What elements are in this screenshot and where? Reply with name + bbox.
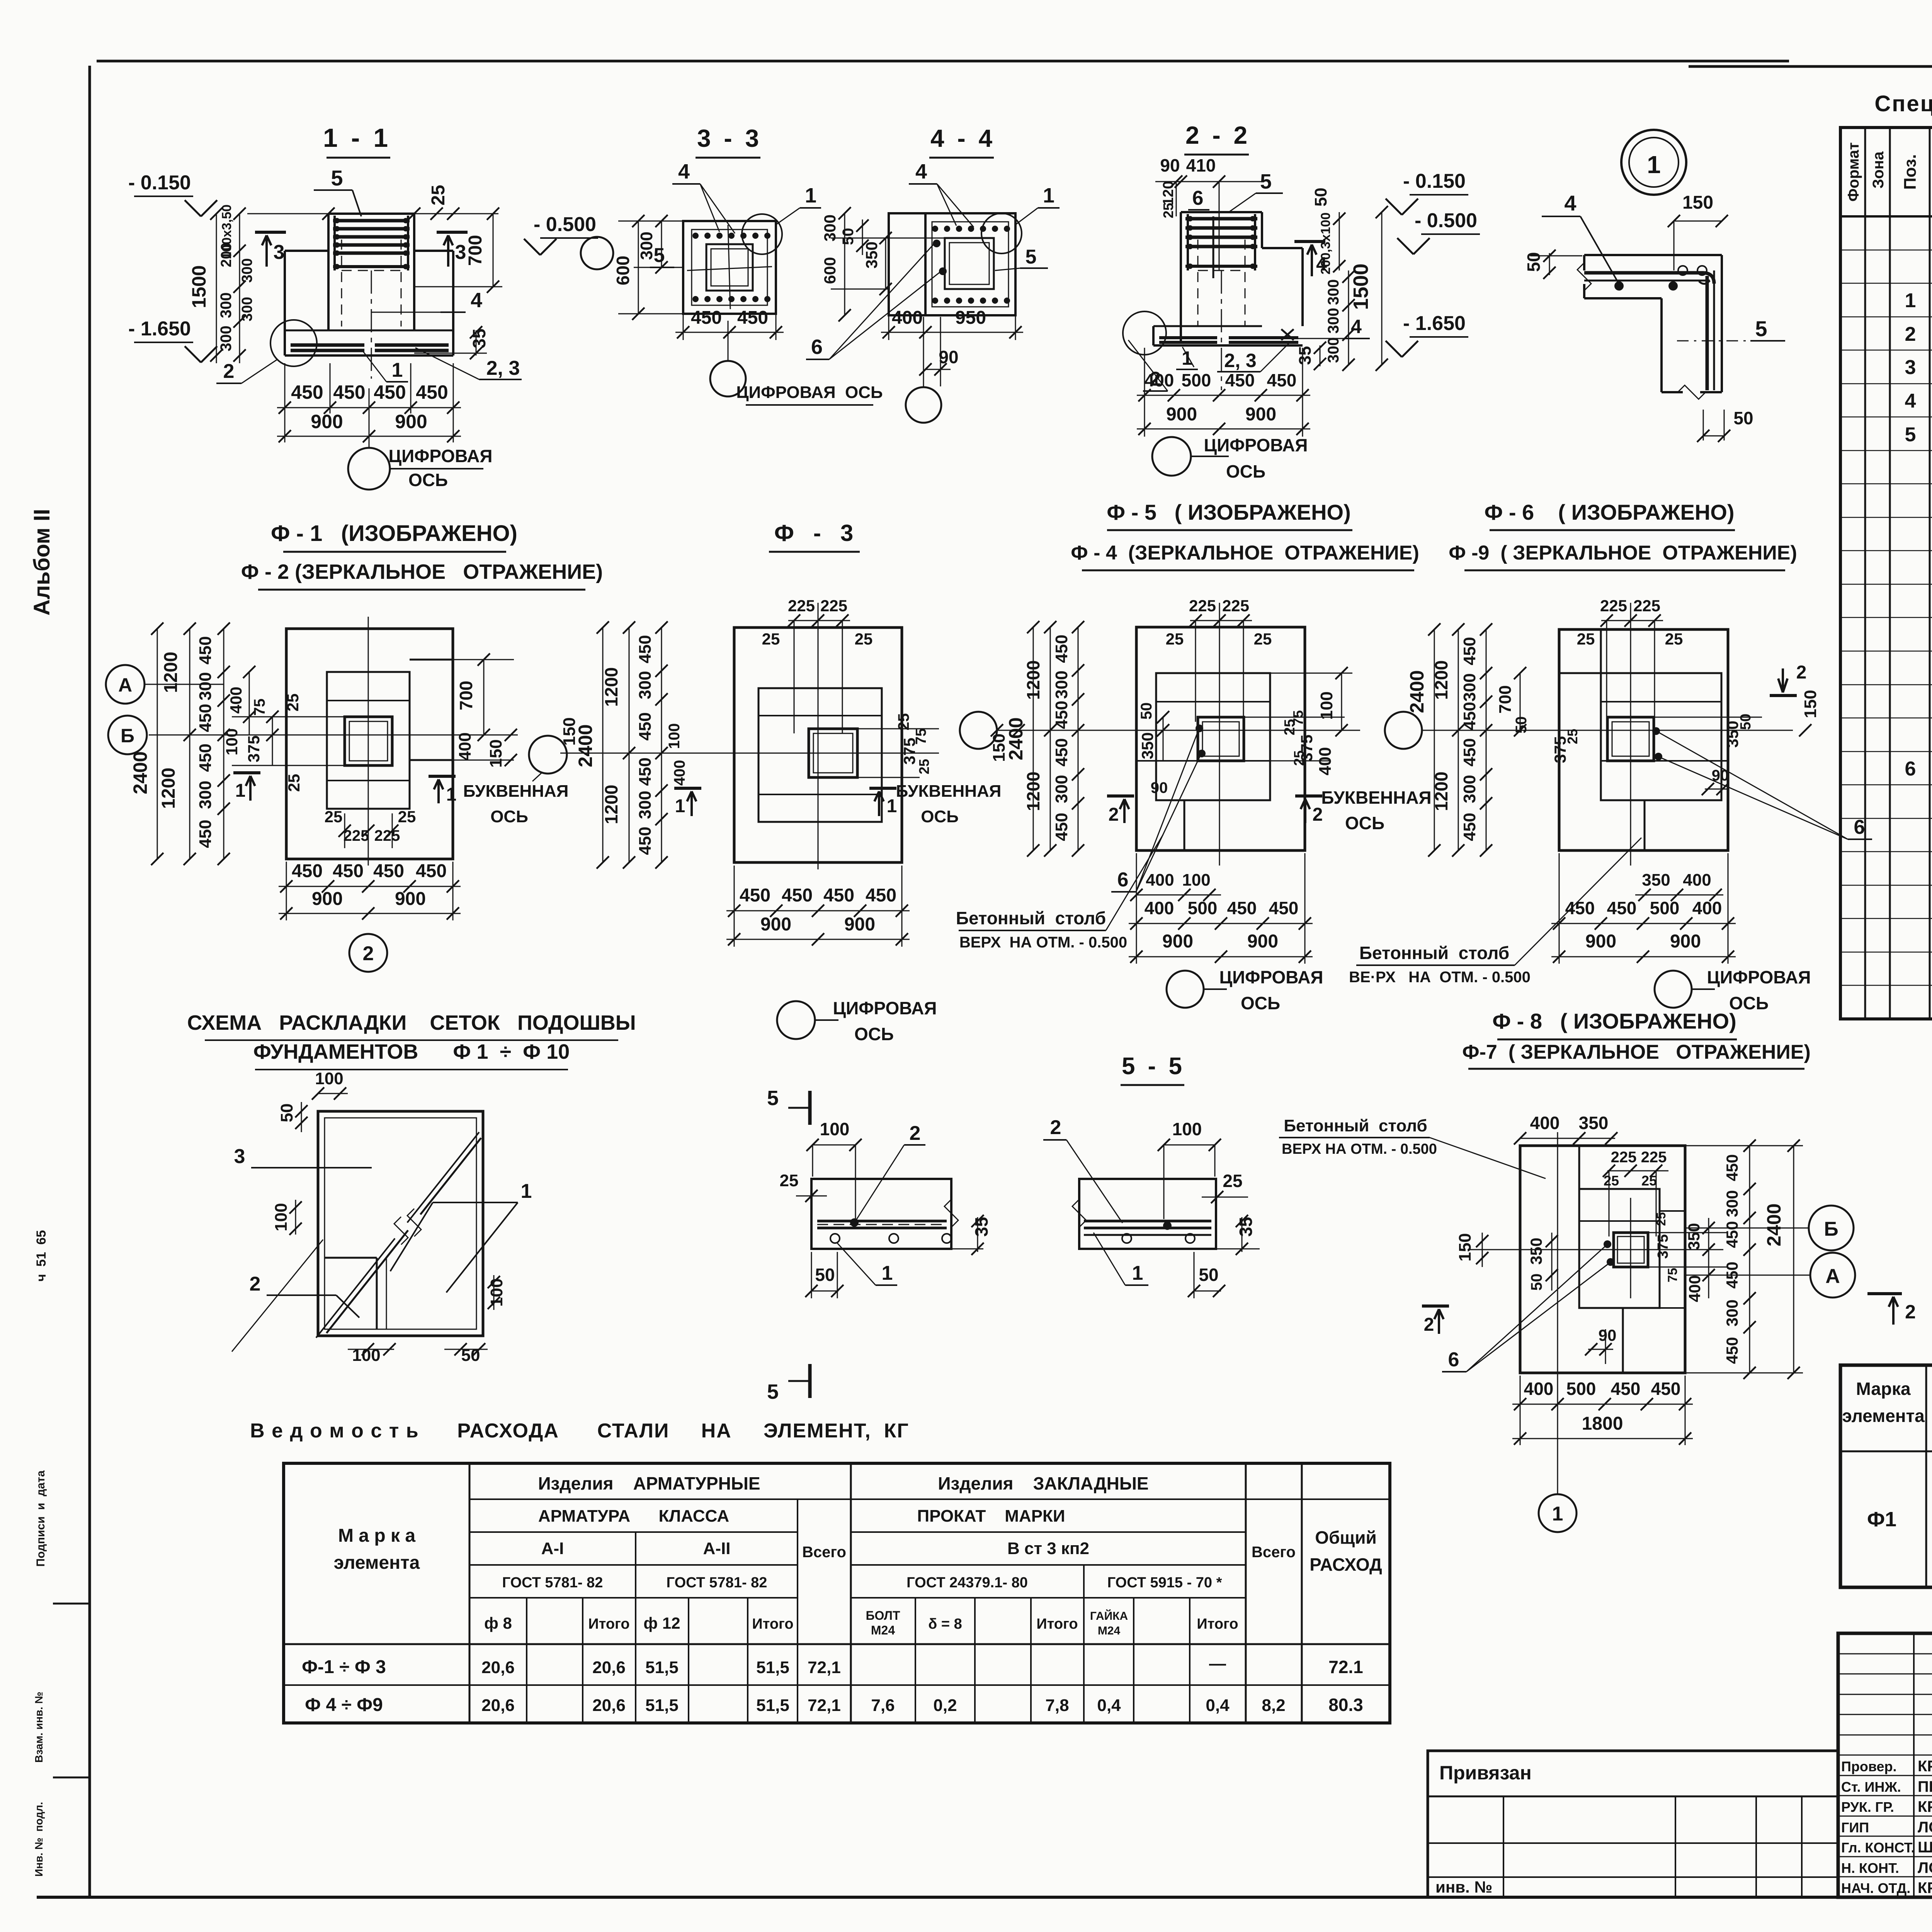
svg-text:4: 4	[1351, 316, 1362, 337]
svg-text:А-II: А-II	[703, 1539, 731, 1558]
svg-text:50: 50	[1524, 252, 1544, 272]
svg-text:2: 2	[223, 360, 235, 383]
plan F-8 top right notch line	[1660, 1210, 1685, 1212]
svg-text:БУКВЕННАЯ: БУКВЕННАЯ	[463, 782, 569, 801]
svg-text:450: 450	[740, 885, 770, 906]
svg-text:500: 500	[1650, 898, 1680, 918]
svg-text:2 - 2: 2 - 2	[1185, 121, 1250, 149]
svg-text:450: 450	[1052, 813, 1071, 841]
section 5-5 left cut flag top	[808, 1091, 812, 1125]
svg-text:450: 450	[291, 381, 323, 403]
svg-text:50: 50	[815, 1265, 835, 1285]
plan F-5 section flag 2 left	[1107, 794, 1134, 798]
svg-text:КРАСАВИН: КРАСАВИН	[1918, 1879, 1932, 1896]
svg-text:Инв. № подл.: Инв. № подл.	[33, 1802, 45, 1877]
svg-text:2400: 2400	[1763, 1203, 1785, 1246]
svg-text:Гл. КОНСТ.: Гл. КОНСТ.	[1841, 1840, 1915, 1855]
svg-text:Ф -9 ( ЗЕРКАЛЬНОЕ ОТРАЖЕНИЕ): Ф -9 ( ЗЕРКАЛЬНОЕ ОТРАЖЕНИЕ)	[1449, 542, 1797, 564]
svg-text:Изделия АРМАТУРНЫЕ: Изделия АРМАТУРНЫЕ	[538, 1473, 760, 1493]
svg-text:1200: 1200	[158, 768, 179, 809]
svg-text:900: 900	[1585, 931, 1616, 952]
section 2-2 inner dashed	[1197, 240, 1199, 326]
loads table header underline	[1840, 1451, 1932, 1452]
plan F-1 tier rect	[327, 672, 410, 809]
plan F-6 axis bubble	[1655, 971, 1692, 1008]
svg-text:2: 2	[910, 1122, 921, 1145]
svg-text:25: 25	[1223, 1171, 1242, 1191]
svg-text:900: 900	[395, 411, 427, 432]
svg-text:—: —	[1209, 1654, 1226, 1673]
spec table row lines	[1840, 250, 1932, 251]
svg-text:3: 3	[274, 241, 285, 264]
svg-text:400: 400	[1685, 1275, 1704, 1302]
svg-text:ГОСТ 24379.1- 80: ГОСТ 24379.1- 80	[906, 1575, 1028, 1591]
svg-text:В ст 3 кп2: В ст 3 кп2	[1007, 1539, 1089, 1558]
detail 1 rebar dots	[1614, 281, 1624, 291]
svg-text:450: 450	[1723, 1337, 1741, 1364]
section 1-1 extension verticals for dims	[284, 363, 286, 442]
plan F-1 axis circle B	[108, 716, 147, 754]
svg-text:Ф-7 ( ЗЕРКАЛЬНОЕ ОТРАЖЕНИЕ): Ф-7 ( ЗЕРКАЛЬНОЕ ОТРАЖЕНИЕ)	[1462, 1041, 1811, 1063]
svg-text:450: 450	[416, 861, 447, 881]
svg-text:Общий: Общий	[1315, 1527, 1377, 1548]
svg-text:100: 100	[352, 1346, 380, 1365]
svg-text:6: 6	[1117, 869, 1129, 891]
svg-text:25: 25	[1665, 630, 1683, 648]
svg-text:450: 450	[1227, 898, 1257, 918]
plan F-3 left dim 1200s	[629, 628, 630, 862]
section 2-2 axis bubble	[1152, 437, 1191, 476]
svg-text:Бетонный столб: Бетонный столб	[956, 908, 1106, 928]
svg-text:ч 51 65: ч 51 65	[34, 1230, 49, 1281]
svg-text:2: 2	[1796, 662, 1807, 683]
svg-text:8,2: 8,2	[1262, 1696, 1285, 1715]
svg-text:25: 25	[285, 774, 303, 792]
svg-text:ПРОХОРОВА: ПРОХОРОВА	[1918, 1778, 1932, 1795]
svg-text:1 - 1: 1 - 1	[323, 123, 391, 153]
svg-text:Ф - 5 ( ИЗОБРАЖЕНО): Ф - 5 ( ИЗОБРАЖЕНО)	[1107, 500, 1350, 524]
svg-text:25: 25	[762, 630, 780, 648]
section 1-1 cavity dashed	[341, 240, 342, 327]
section 3-3 crossing ties	[687, 267, 772, 270]
svg-text:400: 400	[1530, 1113, 1560, 1133]
svg-text:Бетонный столб: Бетонный столб	[1359, 943, 1509, 963]
section 3-3 axis leader to text	[746, 404, 873, 406]
svg-text:100: 100	[820, 1119, 850, 1139]
plan F-1 outer rect	[286, 629, 453, 859]
plan F-1 bottom dim chain 900	[279, 913, 461, 914]
plan F-6 left dim triads	[1486, 629, 1487, 850]
svg-text:В е д о м о с т ь РАСХОДА: В е д о м о с т ь РАСХОДА СТАЛИ НА ЭЛЕМЕ…	[250, 1420, 909, 1442]
svg-text:450: 450	[333, 861, 364, 881]
svg-text:400: 400	[1683, 871, 1711, 889]
mesh layout second diagonal	[316, 1238, 395, 1338]
section 4-4 cavity	[945, 238, 994, 289]
svg-text:450: 450	[1607, 898, 1637, 918]
svg-text:600: 600	[613, 256, 633, 286]
svg-text:ОСЬ: ОСЬ	[408, 470, 448, 490]
section 5-5 right rebar circles	[1122, 1234, 1131, 1243]
section 2-2 rebar dots	[1187, 216, 1193, 221]
svg-text:ОСЬ: ОСЬ	[1241, 993, 1280, 1013]
svg-text:Б: Б	[1824, 1218, 1838, 1240]
svg-text:72,1: 72,1	[808, 1696, 841, 1715]
svg-text:1200: 1200	[161, 652, 181, 693]
svg-text:150: 150	[1456, 1233, 1475, 1261]
plan F-5 left dim 1200s	[1050, 627, 1051, 850]
section 1-1 left dim chain	[216, 214, 217, 363]
svg-text:25: 25	[855, 630, 873, 648]
svg-text:2400: 2400	[1406, 670, 1428, 713]
svg-text:50: 50	[1733, 408, 1753, 428]
svg-text:350: 350	[1579, 1113, 1609, 1133]
svg-text:Итого: Итого	[1036, 1616, 1078, 1632]
svg-text:90: 90	[1599, 1326, 1617, 1344]
section 5-5 left rebar circles	[830, 1234, 840, 1243]
detail 1 bubble	[1621, 130, 1686, 195]
plan F-3 tier rect	[759, 688, 882, 822]
svg-text:450: 450	[333, 381, 365, 403]
section 3-3 axis bubble	[710, 361, 746, 396]
section 1-1 column rebar verticals	[333, 216, 336, 270]
svg-text:2: 2	[1424, 1315, 1434, 1335]
svg-text:Ф - 8 ( ИЗОБРАЖЕНО): Ф - 8 ( ИЗОБРАЖЕНО)	[1492, 1009, 1736, 1033]
svg-text:50: 50	[1311, 188, 1330, 207]
svg-text:5: 5	[767, 1380, 779, 1403]
svg-text:900: 900	[1166, 404, 1197, 425]
svg-text:35: 35	[1236, 1217, 1256, 1236]
svg-text:150: 150	[486, 739, 505, 767]
svg-text:4: 4	[471, 289, 482, 312]
mesh layout inner rect	[325, 1118, 476, 1329]
svg-text:51,5: 51,5	[645, 1658, 679, 1677]
svg-text:Провер.: Провер.	[1841, 1759, 1897, 1774]
svg-text:1: 1	[1552, 1503, 1563, 1525]
section 1-1 top dim line	[247, 213, 498, 214]
svg-text:500: 500	[1566, 1379, 1596, 1399]
plan F-3 section flag 1 right	[869, 787, 896, 790]
plan F-6 tier rect	[1601, 673, 1721, 800]
section 2-2 centerline	[1221, 270, 1222, 390]
svg-text:25: 25	[325, 808, 343, 826]
plan F-5 outer rect	[1136, 627, 1305, 850]
svg-text:ОСЬ: ОСЬ	[921, 807, 959, 826]
svg-text:400: 400	[1524, 1379, 1554, 1399]
svg-text:300: 300	[1723, 1299, 1741, 1327]
svg-text:300: 300	[218, 293, 235, 318]
svg-text:КРАСНОВА: КРАСНОВА	[1918, 1798, 1932, 1815]
svg-text:225: 225	[1641, 1149, 1667, 1166]
svg-text:ЦИФРОВАЯ: ЦИФРОВАЯ	[1219, 967, 1323, 987]
section 5-5 right mesh bars	[1084, 1220, 1211, 1223]
svg-text:100: 100	[666, 723, 683, 749]
plan F-1 left dim 1200s	[189, 629, 190, 859]
svg-text:450: 450	[196, 704, 215, 732]
svg-text:300: 300	[637, 231, 656, 260]
svg-text:100: 100	[1172, 1119, 1202, 1139]
svg-text:6: 6	[1192, 187, 1204, 209]
svg-text:2: 2	[1905, 323, 1916, 345]
section 4-4 bottom dims	[881, 332, 1023, 333]
svg-text:АРМАТУРА КЛАССА: АРМАТУРА КЛАССА	[538, 1507, 729, 1526]
svg-text:4: 4	[1316, 253, 1327, 275]
svg-text:450: 450	[1460, 702, 1479, 730]
plan F-8 horizontal centerlines to axis circles	[1685, 1228, 1809, 1229]
steel table horizontals	[469, 1498, 1390, 1500]
svg-text:М24: М24	[1098, 1624, 1121, 1637]
svg-text:20,6: 20,6	[592, 1658, 626, 1677]
svg-text:0,2: 0,2	[933, 1696, 957, 1715]
section 1-1 rebar dots	[334, 218, 340, 223]
svg-text:150: 150	[1682, 192, 1713, 213]
svg-text:900: 900	[395, 889, 426, 909]
svg-text:ЦИФРОВАЯ ОСЬ: ЦИФРОВАЯ ОСЬ	[736, 383, 883, 402]
svg-text:100: 100	[315, 1069, 343, 1088]
detail 1 slab outline	[1584, 254, 1722, 256]
svg-text:4: 4	[915, 160, 927, 183]
svg-text:450: 450	[1723, 1262, 1741, 1289]
section 4-4 label 1 with circle	[981, 213, 1022, 253]
plan F-8 right dim 2400	[1793, 1146, 1794, 1373]
svg-text:ВЕРХ НА ОТМ. - 0.500: ВЕРХ НА ОТМ. - 0.500	[1282, 1141, 1437, 1157]
section 2-2 bottom rebar	[1159, 336, 1217, 339]
svg-text:300: 300	[1460, 775, 1479, 803]
plan F-8 section flag 2 right	[1867, 1292, 1902, 1295]
title block left grid upper rows	[1838, 1653, 1932, 1655]
svg-text:1: 1	[1182, 347, 1192, 369]
svg-text:6: 6	[1448, 1349, 1459, 1371]
svg-text:75: 75	[1290, 710, 1306, 726]
svg-text:2: 2	[1109, 804, 1119, 825]
plan F-1 horizontal centerline	[149, 735, 518, 736]
svg-text:Изделия ЗАКЛАДНЫЕ: Изделия ЗАКЛАДНЫЕ	[938, 1473, 1148, 1493]
svg-text:1200: 1200	[601, 667, 621, 707]
section 2-2 rebar verticals	[1187, 214, 1189, 270]
section 4-4 axis bubble	[906, 387, 941, 423]
svg-text:5: 5	[1755, 316, 1767, 341]
plan F-6 section flag 2 top	[1770, 694, 1797, 697]
svg-text:Всего: Всего	[802, 1544, 846, 1561]
svg-text:900: 900	[1245, 404, 1276, 425]
spec table outer border	[1840, 128, 1932, 1019]
svg-text:950: 950	[955, 308, 986, 328]
plan F-3 left dim triads	[661, 628, 662, 862]
svg-text:450: 450	[1460, 813, 1479, 841]
svg-text:ЛОУЦКЕР: ЛОУЦКЕР	[1918, 1819, 1932, 1836]
svg-text:5: 5	[331, 166, 343, 190]
svg-text:20,6: 20,6	[592, 1696, 626, 1715]
svg-text:РАСХОД: РАСХОД	[1310, 1554, 1382, 1575]
svg-text:1: 1	[521, 1180, 532, 1202]
svg-text:35: 35	[1296, 346, 1315, 365]
privyazan block rows	[1428, 1796, 1838, 1798]
svg-text:350: 350	[862, 241, 881, 269]
plan F-3 vertical centerline	[818, 603, 819, 869]
plan F-8 axis bubble 1	[1539, 1494, 1577, 1532]
svg-text:400: 400	[1692, 898, 1722, 918]
svg-text:1200: 1200	[1023, 660, 1043, 700]
svg-text:450: 450	[737, 308, 768, 328]
privyazan block outer	[1428, 1751, 1838, 1897]
plan F-6 top-left block	[1600, 629, 1602, 673]
plan F-3 section flag 1 left	[674, 787, 701, 790]
section 4-4 outer rect	[889, 213, 1015, 315]
svg-text:- 1.650: - 1.650	[128, 318, 191, 340]
section 3-3 bottom dims	[675, 332, 784, 333]
svg-text:25: 25	[1641, 1173, 1657, 1189]
plan F-6 bottom step	[1644, 800, 1646, 850]
svg-text:450: 450	[1225, 370, 1255, 390]
svg-text:450: 450	[1052, 701, 1071, 729]
svg-text:90: 90	[1160, 155, 1180, 175]
svg-text:375: 375	[1655, 1234, 1671, 1259]
svg-text:150: 150	[1801, 690, 1820, 718]
svg-text:72.1: 72.1	[1328, 1657, 1363, 1677]
plan F-1 axis bubble 2	[349, 934, 387, 972]
plan F-1 left dim 2400	[157, 629, 158, 859]
privyazan block columns	[1503, 1796, 1504, 1897]
svg-text:300: 300	[1052, 670, 1071, 699]
svg-text:5: 5	[1026, 246, 1037, 268]
plan F-6 vertical centerline	[1630, 603, 1631, 866]
svg-text:ф 8: ф 8	[484, 1614, 512, 1632]
svg-text:δ = 8: δ = 8	[928, 1616, 962, 1632]
mesh layout inner mesh line horizontal	[325, 1257, 377, 1259]
svg-text:75: 75	[1665, 1268, 1680, 1282]
section 1-1 bottom rebar	[291, 344, 364, 347]
svg-text:350: 350	[1527, 1238, 1545, 1265]
svg-text:400: 400	[892, 308, 923, 328]
plan F-1 section flag 1 right	[429, 775, 456, 778]
section 3-3 outer square	[683, 221, 776, 314]
svg-text:Ф - 4 (ЗЕРКАЛЬНОЕ ОТРАЖЕНИЕ): Ф - 4 (ЗЕРКАЛЬНОЕ ОТРАЖЕНИЕ)	[1071, 542, 1419, 564]
svg-text:Итого: Итого	[588, 1616, 629, 1632]
plan F-8 tier rect	[1579, 1189, 1660, 1308]
svg-text:ВЕ·РХ НА ОТМ. - 0.500: ВЕ·РХ НА ОТМ. - 0.500	[1349, 969, 1531, 986]
svg-text:5: 5	[1905, 423, 1916, 446]
svg-text:450: 450	[196, 820, 215, 848]
svg-text:А: А	[1825, 1265, 1840, 1287]
svg-text:400: 400	[1316, 747, 1335, 775]
section 2-2 right step	[1262, 247, 1303, 249]
svg-text:5: 5	[1260, 170, 1272, 193]
svg-text:Привязан: Привязан	[1439, 1762, 1532, 1784]
plan F-1 column square	[345, 717, 392, 765]
svg-text:20,6: 20,6	[481, 1658, 515, 1677]
svg-text:2: 2	[1050, 1116, 1061, 1139]
left margin stamp separator 2	[53, 1777, 90, 1779]
svg-text:1: 1	[392, 359, 403, 381]
svg-text:50: 50	[277, 1104, 296, 1122]
plan F-5 horizontal centerline	[997, 730, 1360, 731]
svg-text:Ф1: Ф1	[1867, 1508, 1896, 1531]
svg-text:450: 450	[1052, 634, 1071, 663]
plan F-5 section flag 2 right	[1295, 794, 1322, 798]
svg-text:900: 900	[311, 411, 343, 432]
svg-text:0,4: 0,4	[1206, 1696, 1230, 1715]
svg-text:1800: 1800	[1582, 1413, 1623, 1434]
svg-text:1200: 1200	[1023, 772, 1043, 811]
svg-text:450: 450	[1269, 898, 1299, 918]
mesh layout diagonal break	[327, 1230, 408, 1333]
plan F-8 right dim triads	[1749, 1146, 1750, 1373]
svg-text:25: 25	[428, 185, 449, 205]
svg-text:2, 3: 2, 3	[1224, 350, 1256, 371]
svg-text:ЛОУЦКЕР: ЛОУЦКЕР	[1918, 1859, 1932, 1876]
svg-text:25: 25	[1166, 630, 1184, 648]
plan F-8 bottom step	[1579, 1307, 1685, 1309]
spec table column lines	[1864, 128, 1866, 1019]
axis bubble right of 1-1	[581, 237, 613, 269]
svg-text:ЦИФРОВАЯ: ЦИФРОВАЯ	[1204, 435, 1308, 455]
svg-text:450: 450	[1460, 637, 1479, 665]
steel table armature verticals	[526, 1598, 527, 1723]
section 2-2 anchor bolt vertical	[1213, 216, 1214, 278]
svg-text:БУКВЕННАЯ: БУКВЕННАЯ	[1321, 787, 1431, 808]
svg-text:1: 1	[446, 784, 457, 805]
svg-text:450: 450	[196, 636, 215, 664]
plan F-3 outer rect	[734, 628, 902, 862]
svg-text:900: 900	[760, 914, 791, 935]
svg-text:ШАПИРО: ШАПИРО	[1918, 1839, 1932, 1856]
svg-text:300: 300	[239, 258, 255, 282]
plan F-6 tier inner lines	[1601, 701, 1721, 702]
svg-text:7,6: 7,6	[871, 1696, 895, 1715]
svg-text:1500: 1500	[1349, 264, 1372, 310]
plan F-8 tier inner line	[1579, 1220, 1660, 1222]
svg-text:450: 450	[823, 885, 854, 906]
svg-text:Формат: Формат	[1845, 142, 1862, 201]
svg-text:ГОСТ 5781- 82: ГОСТ 5781- 82	[667, 1575, 767, 1591]
plan F-6 column square	[1607, 717, 1654, 761]
section 1-1 footing outline	[285, 250, 328, 252]
svg-text:400: 400	[1145, 898, 1174, 918]
section 1-1 detail circle	[270, 320, 317, 366]
steel table embed verticals	[915, 1598, 916, 1723]
plan F-8 axis circle A	[1810, 1253, 1855, 1298]
plan F-1 bottom dim chain 450	[279, 886, 461, 887]
svg-text:450: 450	[636, 757, 655, 786]
svg-text:элемента: элемента	[1842, 1406, 1925, 1426]
section 1-1 column outline	[328, 213, 414, 215]
svg-text:М а р к а: М а р к а	[338, 1526, 415, 1546]
svg-text:51,5: 51,5	[756, 1696, 789, 1715]
plan F-1 left dim 450 300 450 triads	[223, 629, 224, 859]
detail 1 rebar hook	[1699, 281, 1710, 284]
svg-text:4: 4	[1564, 191, 1576, 215]
svg-text:35: 35	[469, 328, 489, 348]
section 5-5 right slab	[1079, 1179, 1216, 1249]
svg-text:450: 450	[1611, 1379, 1641, 1399]
svg-text:Н. КОНТ.: Н. КОНТ.	[1841, 1860, 1899, 1876]
page frame top line	[97, 60, 1789, 63]
svg-text:50: 50	[1199, 1265, 1218, 1285]
section 3-3 rebar dots	[692, 233, 699, 239]
plan F-1 tier inner lines	[327, 700, 410, 701]
svg-text:3: 3	[234, 1145, 245, 1168]
plan F-1 axis circle A	[106, 665, 145, 704]
svg-text:25: 25	[1565, 729, 1580, 744]
svg-text:300: 300	[1325, 279, 1342, 305]
svg-text:ГИП: ГИП	[1841, 1820, 1869, 1835]
svg-text:Ф - 2 (ЗЕРКАЛЬНОЕ ОТРАЖЕНИЕ): Ф - 2 (ЗЕРКАЛЬНОЕ ОТРАЖЕНИЕ)	[241, 560, 603, 583]
svg-text:Ф - 3: Ф - 3	[774, 520, 854, 546]
left margin stamp separator	[53, 1603, 90, 1605]
svg-text:25: 25	[895, 713, 912, 731]
svg-text:450: 450	[373, 861, 404, 881]
title block outer border	[1838, 1633, 1932, 1897]
svg-text:7,8: 7,8	[1045, 1696, 1069, 1715]
